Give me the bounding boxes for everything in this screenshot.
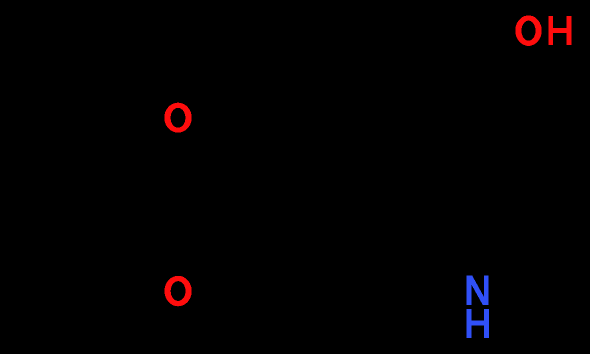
wire ring edge C3-C2 bbox=[375, 118, 380, 233]
wire bond C4-OH bbox=[477, 46, 509, 60]
wire ring edge C4-C3 bbox=[377, 60, 477, 118]
atom N of ring NH (blue N) bbox=[466, 276, 488, 306]
wire ring edge C5-C4 bbox=[477, 60, 577, 118]
wire double bond C=O2 line a bbox=[194, 199, 296, 278]
atom H of hydroxyl OH (red H) bbox=[548, 16, 571, 45]
wire ring edge C6-C5 bbox=[575, 118, 580, 233]
atom O of hydroxyl OH (red O ring) bbox=[515, 15, 541, 45]
wire ring edge C2-N1 bbox=[377, 233, 462, 282]
wire double bond C=O2 line b bbox=[188, 192, 288, 270]
wire bond C-C3 ester to ring bbox=[296, 118, 377, 199]
atom H of ring NH (blue H below N) bbox=[467, 309, 489, 338]
atom O2 carbonyl oxygen (red O ring) bbox=[165, 276, 192, 307]
wire bond CH3-O1 (methyl to ester oxygen) bbox=[34, 28, 163, 101]
wire bond O1-C carbonyl bbox=[191, 136, 296, 199]
wire ring edge N1-C6 bbox=[492, 233, 577, 282]
atom O1 ester oxygen (red O ring) bbox=[164, 103, 191, 133]
